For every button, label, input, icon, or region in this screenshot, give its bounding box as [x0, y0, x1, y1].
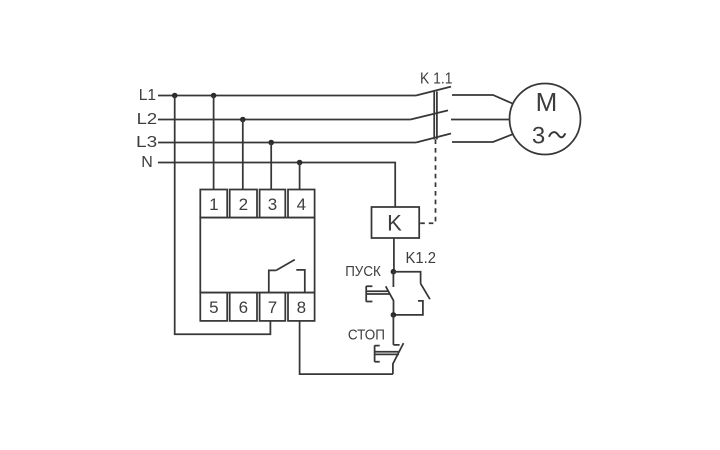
- pushbutton PUSK actuator: [366, 286, 390, 302]
- wire L2 bus: [158, 119, 411, 121]
- relay device body: [200, 218, 314, 293]
- coil K box: [372, 207, 420, 238]
- pushbutton STOP actuator: [375, 345, 399, 362]
- junction L3: [268, 140, 274, 146]
- svg-text:3: 3: [532, 122, 545, 149]
- terminal 2: [230, 190, 257, 218]
- contactor K1.1 blade L2: [411, 110, 449, 119]
- internal relay contact blade: [276, 260, 295, 271]
- wire L3 bus: [158, 142, 416, 144]
- wire contact to motor U: [452, 95, 517, 106]
- wire N to terminal 4: [299, 163, 301, 190]
- svg-text:L1: L1: [139, 87, 156, 104]
- terminal 4: [288, 190, 315, 218]
- wire L2 to terminal 2: [242, 120, 244, 190]
- wire contact to motor V: [451, 119, 512, 121]
- svg-text:K1.2: K1.2: [406, 250, 437, 267]
- pushbutton STOP upper lead: [393, 315, 399, 345]
- svg-text:L2: L2: [137, 111, 158, 128]
- auxiliary contact K1.2 blade: [421, 284, 430, 300]
- svg-text:K 1.1: K 1.1: [420, 71, 453, 88]
- internal relay contact left pole: [269, 270, 276, 292]
- junction L2: [240, 117, 246, 123]
- motor M 3~: [510, 84, 581, 155]
- svg-text:6: 6: [239, 298, 248, 317]
- svg-text:ПУСК: ПУСК: [345, 264, 381, 280]
- wire coil K to node A: [393, 238, 395, 272]
- junction node B: [391, 312, 397, 318]
- svg-text:5: 5: [209, 298, 218, 317]
- wire L1 to terminal 1: [213, 96, 215, 190]
- junction node A: [391, 269, 397, 275]
- terminal 5: [200, 293, 227, 321]
- svg-text:1: 1: [209, 195, 218, 214]
- svg-text:8: 8: [297, 298, 306, 317]
- wire STOP to terminal 8: [300, 321, 393, 374]
- junction N: [297, 160, 303, 166]
- svg-text:7: 7: [268, 298, 277, 317]
- terminal 7: [260, 293, 286, 321]
- terminal 8: [288, 293, 315, 321]
- terminal 6: [230, 293, 257, 321]
- wire contact to motor W: [452, 133, 517, 143]
- pushbutton PUSK upper lead: [392, 272, 394, 287]
- contactor K1.1 blade L3: [416, 134, 451, 143]
- wire L3 to terminal 3: [270, 143, 272, 190]
- svg-text:3: 3: [268, 195, 277, 214]
- svg-text:N: N: [141, 154, 153, 171]
- pushbutton PUSK blade: [386, 286, 394, 315]
- auxiliary contact K1.2 upper lead: [393, 272, 420, 284]
- auxiliary contact K1.2 lower lead: [393, 301, 423, 315]
- svg-text:4: 4: [297, 195, 306, 214]
- svg-text:2: 2: [239, 195, 248, 214]
- contactor K1.1 blade L1: [416, 87, 451, 96]
- internal relay contact right pole: [296, 270, 305, 293]
- svg-text:K: K: [387, 211, 402, 236]
- junction L1-a: [172, 93, 178, 99]
- junction L1-b: [211, 93, 217, 99]
- pushbutton STOP blade: [393, 343, 404, 374]
- wire N bus to coil K: [158, 163, 395, 208]
- svg-text:L3: L3: [136, 134, 157, 151]
- terminal 1: [200, 190, 227, 218]
- dashed link K1.1 to coil K: [420, 139, 436, 223]
- wire L1 bus: [158, 95, 416, 97]
- svg-text:СТОП: СТОП: [348, 327, 385, 343]
- svg-text:M: M: [536, 87, 558, 117]
- terminal 3: [260, 190, 286, 218]
- contactor K1.1 linkage bar: [434, 92, 437, 140]
- wire L1 to terminal 7 loop: [175, 96, 271, 335]
- motor phase tilde: [549, 132, 565, 137]
